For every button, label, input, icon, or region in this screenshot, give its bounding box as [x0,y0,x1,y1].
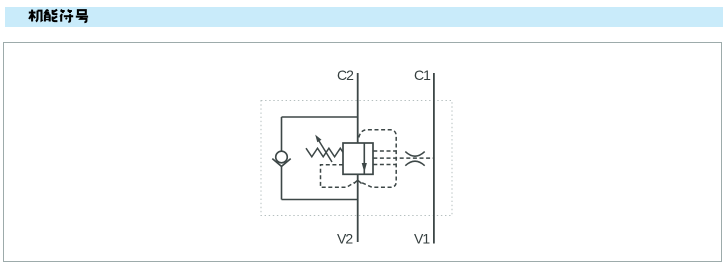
pilot stub upper (dashed) [373,150,396,152]
orifice lower arc [405,161,424,166]
adjustable spring [306,148,343,157]
orifice upper arc [405,152,424,157]
valve body box [343,143,373,174]
svg-text:C2: C2 [337,67,354,83]
outer envelope (dotted assembly boundary) [261,101,452,216]
spring adjustment arrow shaft [318,139,333,163]
char 符 [60,10,73,22]
char 能 [45,10,58,22]
pilot line right loop (dashed) [359,130,396,188]
wire: bypass loop left upper [281,117,283,151]
title 机能符号 drawn as strokes [29,10,88,22]
check valve seat [272,159,290,167]
valve internal passage line [363,143,365,174]
pilot actuation chevron [354,180,362,183]
char 机 [29,10,43,22]
wire: bypass loop left lower [281,166,283,199]
pilot stub lower (dashed) [373,164,396,166]
valve flow arrow head [362,163,367,172]
pilot line middle through orifice to C1 (dashed) [373,157,434,159]
check valve ball [276,151,288,163]
pilot line left loop (dashed) [321,165,355,188]
char 号 [76,10,88,22]
wire: C1-V1 line [433,73,435,244]
header bar [5,7,723,27]
port labels [337,67,431,247]
wire: V2 line lower [357,174,359,242]
wire: C2 line upper [357,73,359,143]
wire: bypass loop top [282,116,358,118]
svg-text:V2: V2 [337,231,353,247]
spring arrow head [315,135,321,143]
svg-text:V1: V1 [414,231,430,247]
wire: bypass loop bottom [282,199,358,201]
svg-text:C1: C1 [414,67,431,83]
